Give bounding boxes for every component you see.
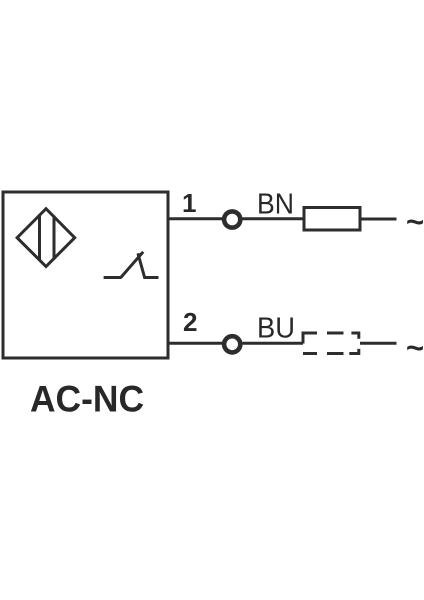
NC contact blade <box>121 252 143 278</box>
diamond left chord <box>38 215 41 261</box>
svg-text:~: ~ <box>406 204 424 239</box>
svg-text:1: 1 <box>182 188 196 218</box>
terminal 1 circle <box>224 211 240 227</box>
proximity sensor symbol diamond <box>17 209 75 267</box>
svg-text:2: 2 <box>183 307 197 337</box>
svg-text:~: ~ <box>406 330 424 365</box>
dashed load box top-right corner <box>351 333 358 339</box>
NC contact left lead <box>104 276 122 279</box>
diamond right chord <box>53 216 56 260</box>
dashed load box top-left corner <box>303 333 317 344</box>
sensor body box <box>3 192 168 358</box>
NC contact right leg and lead <box>138 253 159 277</box>
svg-text:AC-NC: AC-NC <box>30 379 144 420</box>
dashed load box bottom-right corner <box>349 349 359 354</box>
svg-text:BN: BN <box>257 189 294 221</box>
terminal 2 circle <box>224 336 240 352</box>
wire 2 terminal to dashed load <box>243 342 304 345</box>
wire 2 load to source <box>360 342 397 345</box>
wire 1 load to source <box>360 218 397 221</box>
wire 1 terminal to load <box>243 217 305 220</box>
dashed load box bottom-left dash <box>303 352 317 355</box>
dashed load box top dash <box>327 332 344 335</box>
load resistor R (BN line) <box>304 208 360 231</box>
svg-text:BU: BU <box>257 313 295 345</box>
dashed load box bottom dash <box>327 352 344 355</box>
wire 2 from box to terminal <box>168 342 222 345</box>
wire 1 from box to terminal <box>168 217 222 220</box>
